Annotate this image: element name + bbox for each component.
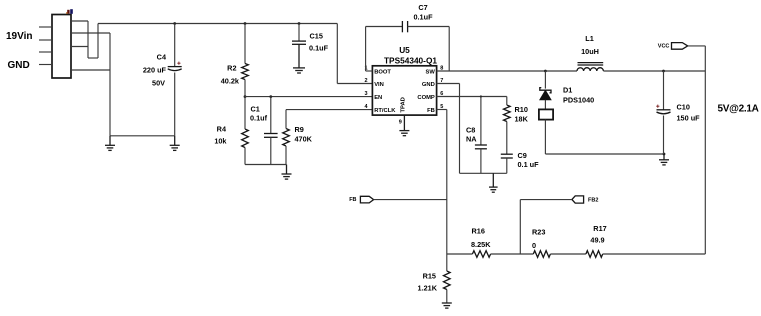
wire COMP [437,96,507,98]
wire [110,135,175,137]
svg-text:BOOT: BOOT [374,70,391,76]
svg-text:8.25K: 8.25K [471,240,491,249]
svg-text:18K: 18K [515,115,529,124]
diode D1 [540,88,551,93]
connector J1 refdes mark [66,9,73,14]
flag FB2 [572,196,584,203]
svg-text:220 uF: 220 uF [143,66,167,75]
svg-text:0.1uf: 0.1uf [250,114,268,123]
svg-text:0.1uF: 0.1uF [309,44,329,53]
wire [603,253,706,255]
wire [459,84,461,174]
wire [245,164,286,166]
inductor L1 [577,68,603,71]
svg-text:C4: C4 [157,53,167,62]
svg-text:RT/CLK: RT/CLK [374,108,396,114]
wire [544,100,546,110]
wire [244,24,246,64]
wire [298,44,300,68]
wire [336,24,338,84]
wire [365,27,367,72]
ground [659,159,669,161]
resistor R2 [242,64,249,80]
wire [704,46,706,254]
wire [87,21,89,58]
svg-text:VIN: VIN [374,82,384,88]
svg-text:R9: R9 [295,125,304,134]
wire [446,290,448,304]
wire [174,136,176,146]
svg-text:C1: C1 [251,105,260,114]
wire [448,27,450,72]
wire [97,24,99,59]
ground [282,173,292,175]
svg-text:GND: GND [8,60,30,71]
wire [506,97,508,106]
capacitor C15 [292,40,306,42]
wire [447,253,473,255]
wire [71,69,110,71]
svg-text:19Vin: 19Vin [6,31,33,42]
wire [244,97,246,129]
wire [550,253,586,255]
wire [446,254,448,271]
svg-text:1.21K: 1.21K [418,284,438,293]
node rail-C10 [662,70,665,73]
svg-text:L1: L1 [585,34,594,43]
connector pin stub 1 [39,26,52,28]
wire [174,73,176,136]
svg-text:50V: 50V [152,79,165,88]
resistor R17 [586,251,603,258]
wire [109,136,111,146]
wire [506,158,508,173]
wire [88,57,98,59]
svg-text:U5: U5 [399,45,410,55]
wire [544,120,546,154]
node rail-C15 [298,22,301,25]
wire [270,137,272,164]
svg-text:TPAD: TPAD [400,97,406,112]
svg-text:C7: C7 [418,3,427,12]
svg-text:470K: 470K [295,135,313,144]
svg-text:FB: FB [427,108,435,114]
svg-text:9: 9 [399,120,402,126]
capacitor C7 [401,21,403,32]
wire [374,199,447,201]
ground [489,186,498,188]
wire [520,199,572,201]
wire GND7 [437,83,460,85]
wire [663,71,665,110]
ground [442,302,452,304]
wire [174,24,176,67]
wire [285,146,287,165]
connector pin stub 4 [39,64,52,66]
pin 9 stem [403,115,405,131]
svg-text:150 uF: 150 uF [677,114,701,123]
wire [491,253,534,255]
node rail-C4 [173,22,176,25]
svg-text:R4: R4 [217,125,227,134]
svg-text:10k: 10k [214,137,227,146]
svg-text:NA: NA [466,135,477,144]
wire [366,26,403,28]
connector J1 body [52,15,71,79]
wire [545,153,664,155]
wire VIN [337,83,372,85]
wire [298,24,300,42]
wire [286,165,288,175]
wire EN [245,96,372,98]
svg-text:C8: C8 [466,126,475,135]
svg-text:GND: GND [422,82,435,88]
wire [71,46,88,48]
svg-text:0.1uF: 0.1uF [413,13,433,22]
resistor R23 [533,251,550,258]
svg-text:VCC: VCC [658,43,670,49]
wire [285,110,287,129]
svg-text:C9: C9 [518,151,527,160]
wire [71,32,110,34]
flag VCC [672,43,688,50]
wire [663,154,665,160]
ground TPAD [399,130,409,132]
wire [506,122,508,155]
node rail-R2 [244,22,247,25]
svg-text:40.2k: 40.2k [221,77,240,86]
svg-text:R16: R16 [472,227,485,236]
connector pin stub 2 [39,39,52,41]
wire input rail [98,23,337,25]
svg-text:C15: C15 [310,32,323,41]
svg-text:D1: D1 [563,86,572,95]
svg-text:TPS54340-Q1: TPS54340-Q1 [384,56,437,66]
svg-text:COMP: COMP [417,95,435,101]
wire SW [437,70,577,72]
wire [408,26,450,28]
svg-text:EN: EN [374,95,382,101]
flag FB [360,196,373,203]
svg-text:SW: SW [425,70,435,76]
ground [293,67,305,69]
node gnd-C10 [663,153,666,156]
wire [480,149,482,174]
C10 plus [656,105,659,107]
wire FB stub [437,109,447,111]
resistor R15 [444,271,451,290]
wire [244,148,246,165]
svg-text:3: 3 [364,91,367,97]
svg-text:49.9: 49.9 [590,236,604,245]
wire BOOT stub [366,70,373,72]
svg-text:PDS1040: PDS1040 [563,96,594,105]
capacitor C4 [168,66,182,68]
svg-text:C10: C10 [677,103,690,112]
wire [519,200,521,254]
wire [244,80,246,97]
svg-text:5V@2.1A: 5V@2.1A [718,104,759,115]
C4 plus [177,62,180,64]
wire [71,20,88,22]
resistor R16 [472,251,490,258]
wire [460,172,507,174]
svg-text:10uH: 10uH [581,47,599,56]
svg-text:FB2: FB2 [588,197,598,203]
wire [688,45,706,47]
node EN junction [244,95,247,98]
svg-text:2: 2 [364,78,367,84]
svg-text:R23: R23 [532,228,545,237]
node SW-D1 [544,70,547,73]
node C1 top [269,95,272,98]
resistor R4 [242,129,249,148]
wire [663,116,665,155]
resistor R10 [504,105,511,122]
node C8 top [480,95,482,97]
op-amp U5 body [372,66,436,115]
svg-text:R17: R17 [593,224,606,233]
svg-text:0.1 uF: 0.1 uF [518,160,540,169]
svg-text:R10: R10 [515,105,528,114]
wire [446,110,448,255]
wire [109,33,111,136]
svg-text:R2: R2 [227,64,236,73]
wire [480,97,482,146]
connector pin stub 3 [39,51,52,53]
capacitor C8 [475,144,487,146]
wire [492,173,494,187]
resistor R9 [283,129,290,147]
capacitor C9 [501,153,513,155]
ground [170,144,180,146]
wire [544,71,546,89]
wire RT/CLK [286,109,372,111]
capacitor C1 [264,133,278,135]
D1 package box [539,109,553,119]
svg-text:0: 0 [532,241,536,250]
wire [270,97,272,134]
svg-text:R15: R15 [423,272,436,281]
ground [105,144,115,146]
svg-text:FB: FB [349,197,356,203]
wire [603,70,705,72]
capacitor C10 [657,109,671,111]
